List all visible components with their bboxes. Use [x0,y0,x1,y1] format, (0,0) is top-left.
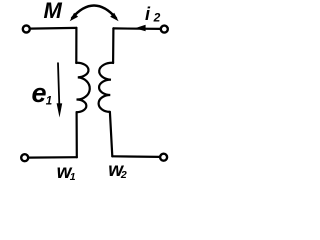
terminal bottom-left [21,154,28,161]
terminal top-left [23,26,30,33]
inductor L1 winding w1 [76,63,89,112]
svg-text:2: 2 [153,10,161,24]
terminal top-right [161,26,168,33]
mutual arrow left head [70,13,78,21]
wire bottom-right horizontal [112,155,159,158]
inductor L2 winding w2 [99,63,113,112]
svg-text:i: i [145,4,151,24]
svg-text:1: 1 [46,96,52,108]
svg-text:M: M [44,0,63,23]
mutual arrow right head [110,13,118,21]
mutual coupling arrow M arc [72,6,116,19]
wire left vertical upper [75,28,77,63]
wire top-right horizontal [113,27,160,30]
wire right vertical upper [112,28,115,63]
wire top-left horizontal [30,27,76,30]
terminal bottom-right [160,154,167,161]
svg-text:1: 1 [70,171,76,183]
wire right vertical lower [110,112,112,156]
current arrow i2 head [135,25,146,32]
svg-text:2: 2 [120,169,127,181]
wire bottom-left horizontal [28,156,76,159]
arrow e1 shaft [58,63,59,105]
wire left vertical lower [75,112,77,157]
arrow e1 head [57,103,63,117]
svg-text:e: e [32,78,47,108]
